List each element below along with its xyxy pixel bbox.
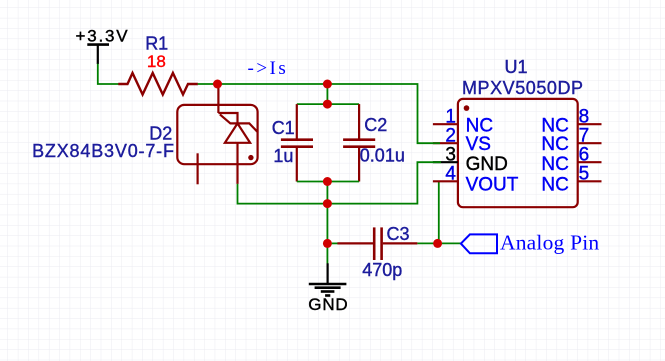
wire cap bottom bar — [297, 181, 359, 183]
U1 pin 1 NC — [433, 106, 493, 136]
U1 pin 6 NC — [541, 145, 601, 175]
wire VOUT down to analog node — [438, 182, 440, 244]
svg-text:C1: C1 — [272, 118, 295, 138]
svg-text:3: 3 — [445, 145, 456, 166]
junction dot (rail / caps branch) — [323, 80, 332, 89]
svg-text:1u: 1u — [273, 146, 293, 166]
net flag Analog Pin — [461, 231, 599, 255]
resistor R1 — [118, 34, 198, 95]
U1 pin 5 NC — [541, 164, 601, 196]
svg-text:Analog Pin: Analog Pin — [500, 231, 599, 255]
svg-text:18: 18 — [147, 52, 166, 71]
svg-text:BZX84B3V0-7-F: BZX84B3V0-7-F — [32, 141, 175, 161]
junction dot (cap bottom bar) — [323, 177, 332, 186]
wire caps branch vertical — [326, 84, 328, 104]
junction dot (cap top bar) — [323, 100, 332, 109]
wire caps to gnd vertical — [326, 182, 328, 264]
IC U1 MPXV5050DP — [458, 57, 584, 207]
wire cap top bar — [297, 103, 359, 105]
svg-text:+3.3V: +3.3V — [76, 27, 130, 46]
capacitor C1 — [272, 104, 313, 181]
svg-text:NC: NC — [541, 175, 568, 196]
svg-text:VOUT: VOUT — [466, 175, 519, 196]
junction dot (R1 / D2 node) — [213, 80, 222, 89]
capacitor C2 — [343, 104, 405, 181]
U1 pin 8 NC — [541, 106, 601, 136]
wire gnd node to C3 — [327, 242, 337, 244]
wire R1 to VS pin (main rail) — [198, 84, 440, 143]
svg-text:5: 5 — [579, 164, 590, 185]
svg-text:C2: C2 — [364, 115, 387, 135]
wire C3 to analog pin — [417, 242, 461, 244]
U1 pin 3 GND — [433, 145, 508, 175]
svg-text:NC: NC — [541, 154, 568, 175]
svg-text:GND: GND — [308, 295, 348, 314]
svg-text:1: 1 — [445, 106, 456, 127]
svg-text:470p: 470p — [362, 260, 402, 280]
U1 pin 2 VS — [433, 126, 491, 156]
U1 pin 7 NC — [541, 126, 601, 156]
U1 pin 4 VOUT — [433, 164, 519, 196]
junction dot (bottom rail / gnd) — [323, 199, 332, 208]
svg-text:R1: R1 — [145, 34, 168, 54]
wire D2 to bottom rail and to GND pin3 — [238, 162, 442, 203]
zener diode D2 — [32, 84, 258, 184]
svg-text:0.01u: 0.01u — [360, 146, 405, 166]
svg-text:GND: GND — [466, 154, 508, 175]
svg-text:6: 6 — [579, 145, 590, 166]
power flag +3.3V — [76, 27, 130, 64]
junction dot (VOUT / C3 / flag) — [433, 239, 442, 248]
svg-text:C3: C3 — [387, 224, 410, 244]
junction dot (C3 branch) — [323, 239, 332, 248]
svg-text:2: 2 — [445, 126, 456, 147]
svg-text:7: 7 — [579, 126, 590, 147]
svg-text:8: 8 — [579, 106, 590, 127]
wire from +3.3V to R1 — [98, 64, 119, 84]
svg-text:NC: NC — [541, 134, 568, 155]
svg-text:U1: U1 — [505, 57, 528, 77]
ground — [308, 263, 348, 314]
svg-text:VS: VS — [466, 134, 491, 155]
svg-text:4: 4 — [445, 164, 456, 185]
capacitor C3 — [337, 224, 417, 280]
svg-text:->Is: ->Is — [248, 58, 289, 79]
svg-text:MPXV5050DP: MPXV5050DP — [462, 78, 584, 98]
